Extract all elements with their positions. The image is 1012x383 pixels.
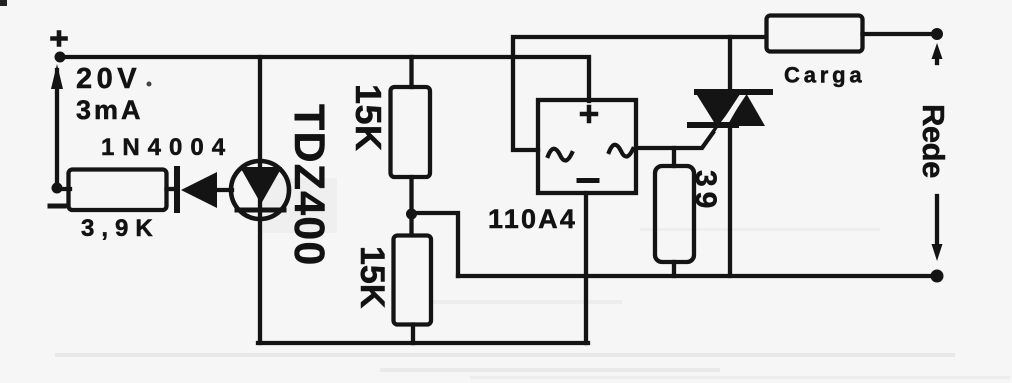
wire rail A [458, 274, 937, 278]
wire junction to lower rail A [412, 213, 459, 276]
triac Q1 top bar [697, 89, 770, 95]
svg-text:15K: 15K [353, 246, 391, 309]
wire AC1 loop to top [513, 37, 766, 150]
wire bottom rail [258, 341, 588, 345]
svg-text:3mA: 3mA [76, 95, 144, 125]
arrow up left [51, 64, 63, 89]
bridge ac mark right [609, 145, 633, 157]
triac Q1 white notch [719, 87, 748, 131]
svg-text:39: 39 [689, 170, 722, 213]
triac Q1 right triangle [727, 93, 765, 126]
svg-text:1N4004: 1N4004 [101, 134, 233, 161]
wire left rail [55, 70, 59, 188]
wire Carga to terminal [863, 32, 938, 36]
wire node to R1 [57, 187, 70, 191]
wire 39 bottom stub [672, 262, 676, 276]
svg-text:TDZ400: TDZ400 [285, 104, 333, 267]
svg-text:20V: 20V [76, 63, 141, 95]
plus terminal symbol [53, 33, 66, 45]
diode D1 1N4004 [174, 169, 180, 210]
node dot right-bottom terminal [931, 270, 944, 283]
bridge rectifier B1 [538, 100, 636, 193]
svg-text:110A4: 110A4 [488, 204, 577, 234]
arrow up right [935, 55, 939, 63]
wire bridge minus vertical [584, 193, 588, 343]
node dot top-left [55, 52, 66, 63]
triac Q1 left triangle [697, 95, 742, 127]
corner smudge [0, 0, 7, 6]
triac Q1 bottom bar [690, 122, 736, 128]
wire U1 vertical [258, 57, 262, 343]
resistor R5 Carga [767, 16, 863, 52]
trigger device U1 TDZ400 [231, 161, 289, 219]
node junction dot [406, 209, 417, 220]
svg-text:Rede: Rede [916, 104, 951, 178]
scan streak artifacts [55, 353, 955, 357]
wire R2 to R3 [409, 177, 413, 235]
node dot bottom-left [52, 183, 63, 194]
svg-text:15K: 15K [348, 84, 389, 152]
bridge plus mark [582, 107, 596, 121]
speck after 20V [147, 82, 152, 87]
wire AC2 to gate [636, 127, 717, 148]
bridge ac mark left [548, 149, 572, 161]
wire triac MT2 [728, 37, 732, 92]
svg-text:Carga: Carga [784, 63, 865, 88]
wire R3 bottom stub [411, 325, 415, 344]
node dot right-top terminal [931, 28, 943, 40]
wire top rail [58, 57, 589, 101]
wire 15K top stub [409, 57, 413, 87]
arrow down right [935, 196, 939, 246]
resistor R4 39 [655, 166, 694, 262]
resistor R1 3,9K [69, 170, 167, 211]
resistor R2 15K upper [391, 87, 431, 177]
wire triac MT1 [728, 127, 732, 276]
svg-text:3,9K: 3,9K [81, 215, 160, 242]
resistor R3 15K lower [394, 236, 432, 325]
wire D1 to U1 [217, 188, 232, 192]
bridge minus mark [579, 178, 597, 183]
minus terminal symbol [50, 204, 64, 209]
wire R1 to D1 [167, 187, 175, 191]
wire 39 top stub [672, 148, 676, 166]
